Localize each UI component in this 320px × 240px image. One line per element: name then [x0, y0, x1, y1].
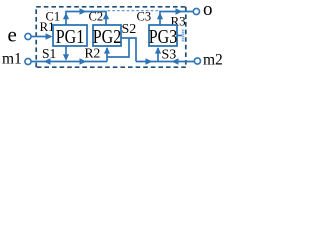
arrowhead up into bus at C1 — [63, 13, 69, 20]
wire: S2 output from PG2 right edge with drops — [121, 38, 136, 62]
block PG3 — [149, 25, 177, 46]
wire: PG3 right output stub — [177, 35, 182, 37]
svg-text:S2: S2 — [122, 22, 137, 37]
wire: bottom bus left segment m1 to R2 riser — [31, 61, 107, 63]
wire: e input to PG1 — [31, 36, 51, 38]
wire: dashed top bus segment between C2 and C3 — [108, 10, 159, 12]
node m2 circle — [194, 58, 200, 64]
svg-text:C3: C3 — [137, 9, 152, 23]
arrowhead right on bus toward o — [176, 8, 183, 14]
node m1 circle — [25, 58, 31, 64]
node e circle — [25, 33, 31, 39]
arrowhead up into PG2 bottom R2 — [104, 47, 110, 54]
svg-text:PG1: PG1 — [56, 26, 85, 48]
svg-text:R2: R2 — [85, 46, 101, 61]
node o circle — [193, 8, 199, 14]
arrowhead left toward m1 — [44, 58, 51, 64]
arrowhead right toward S3 junction — [146, 58, 153, 64]
svg-text:o: o — [203, 0, 213, 20]
arrowhead right into PG1 — [46, 33, 53, 39]
svg-text:PG3: PG3 — [149, 26, 178, 48]
arrowhead right on top bus C1-C2 — [80, 8, 87, 14]
arrowhead down into bottom bus S1 — [63, 54, 69, 61]
wire: bottom bus right segment to m2 — [136, 61, 194, 63]
arrowhead up into PG3 bottom S3 — [155, 47, 161, 54]
svg-text:m2: m2 — [203, 52, 223, 69]
block PG1 — [53, 25, 87, 46]
arrowhead left from m2 — [172, 58, 179, 64]
arrowhead up into bus at C3 — [157, 13, 163, 20]
svg-text:S1: S1 — [42, 46, 56, 61]
wire: S1 drop from PG1 to bottom bus — [65, 46, 67, 58]
arrowhead up into bus at C2 — [103, 13, 109, 20]
wire: R2 feedback loop into PG2 bottom — [107, 38, 129, 62]
hatched termination at boundary — [182, 30, 185, 42]
svg-text:PG2: PG2 — [93, 26, 122, 48]
svg-text:m1: m1 — [2, 51, 22, 68]
arrowhead right on bottom bus — [80, 58, 87, 64]
svg-text:C2: C2 — [89, 9, 104, 23]
wire: C1 riser, top bus segment, C2 drop — [66, 12, 106, 26]
svg-text:e: e — [8, 23, 17, 47]
wire: C3 riser and bus to output o — [160, 12, 193, 26]
block PG2 — [93, 25, 121, 46]
wire: S3 riser into PG3 bottom — [157, 48, 159, 62]
dashed boundary box — [36, 7, 186, 67]
svg-text:S3: S3 — [162, 48, 177, 63]
